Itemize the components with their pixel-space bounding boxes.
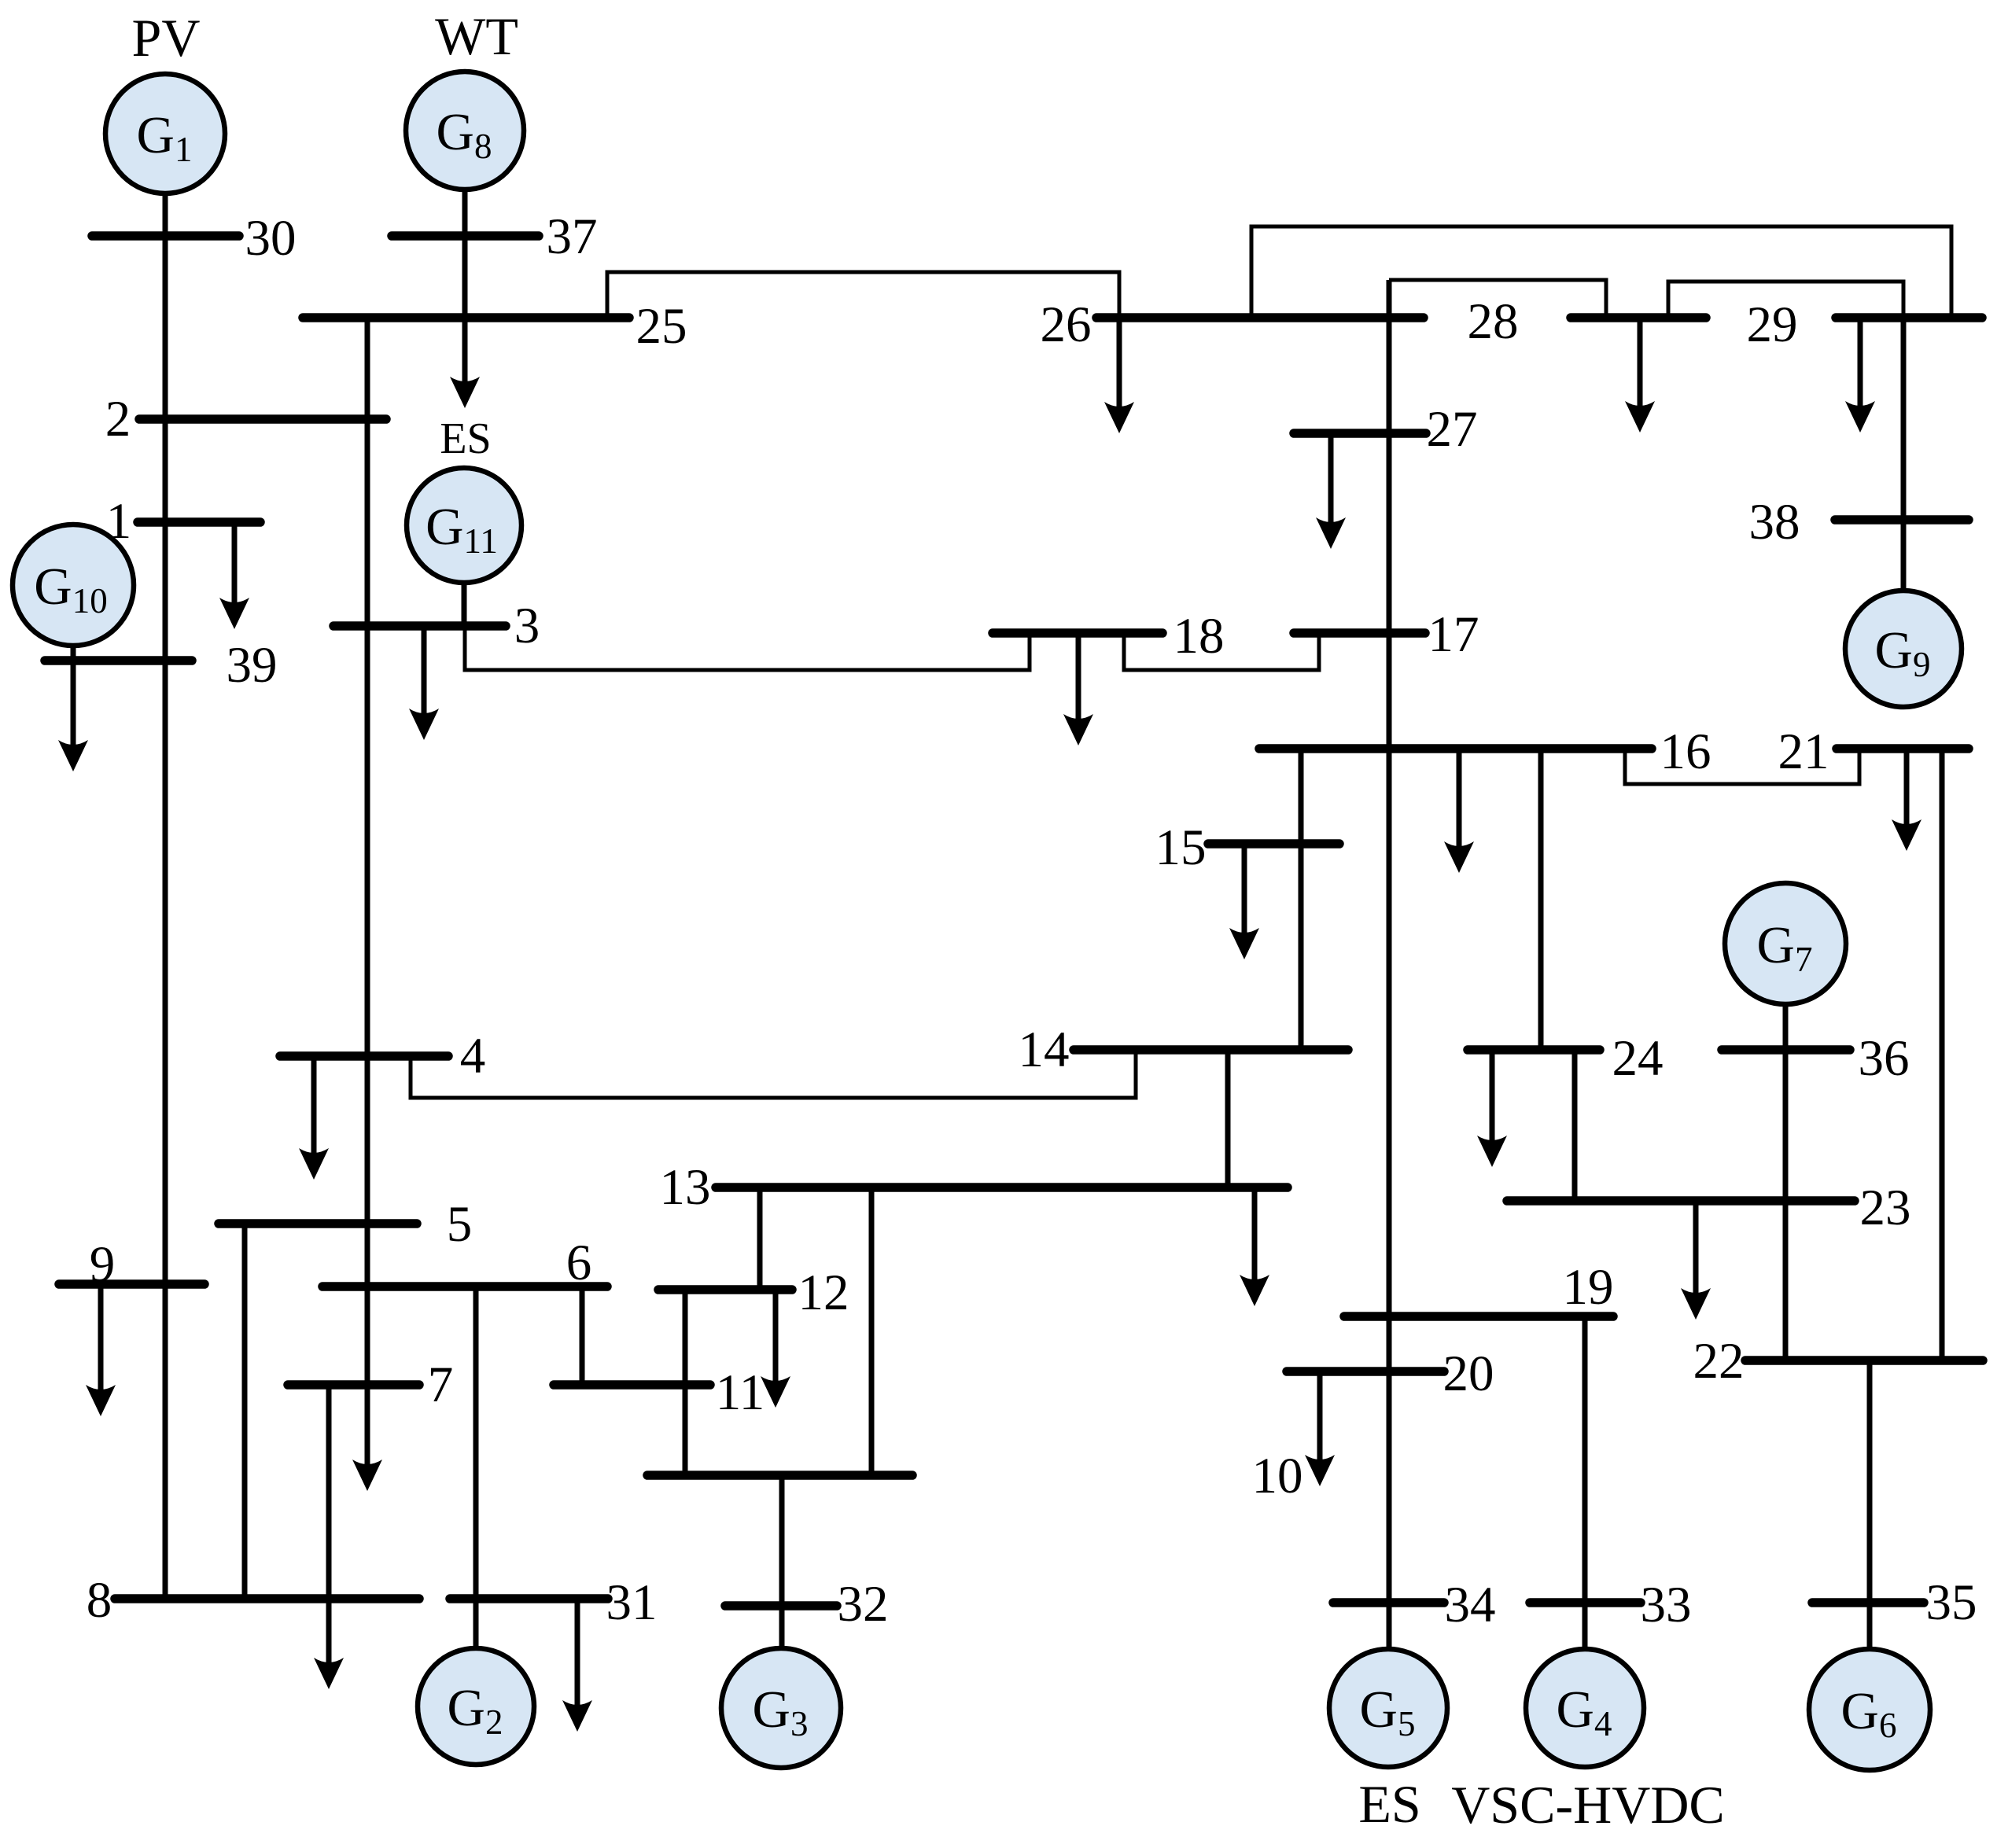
wire 12-11-10 column [683,1290,688,1475]
load arrow bus 13 [1240,1187,1269,1306]
node bus 12 (bus bar) [658,1285,792,1294]
svg-text:8: 8 [87,1572,112,1629]
node bus 25 (bus bar) [303,313,629,322]
svg-text:11: 11 [716,1364,765,1421]
wire line 16-24 [1538,749,1544,1050]
load arrow bus 3 [409,626,439,740]
wire line 7-8 with load arrow bus 8 [314,1385,344,1689]
load arrow bus 23 [1681,1201,1711,1320]
load arrow bus 26 [1104,318,1134,433]
node bus 19 (bus bar) [1344,1312,1613,1321]
wire line 10-13 [869,1187,875,1475]
wire line 17-18 [1124,633,1319,670]
node bus 29 (bus bar) [1836,313,1982,322]
load arrow bus 9 [86,1284,116,1416]
wire line 4-14 [411,1050,1136,1098]
generator G7 [1725,883,1846,1004]
svg-text:ES: ES [1358,1774,1420,1834]
wire G7-36-23-22 column [1783,1004,1789,1360]
svg-text:2: 2 [105,391,131,447]
load arrow bus 28 [1625,318,1655,433]
node bus 17 (bus bar) [1294,628,1425,638]
svg-text:37: 37 [547,208,598,265]
node bus 10 (bus bar) [647,1471,912,1480]
generator G3 [721,1648,841,1768]
svg-text:30: 30 [245,210,297,267]
svg-text:15: 15 [1155,819,1207,876]
svg-text:14: 14 [1019,1022,1070,1078]
wire 10-32 and G3 [779,1475,785,1648]
node bus 32 (bus bar) [725,1601,837,1611]
node bus 4 (bus bar) [280,1051,448,1061]
generator G10 [13,525,134,646]
svg-text:39: 39 [227,637,278,694]
generator G4 [1526,1649,1644,1767]
node bus 22 (bus bar) [1745,1356,1983,1365]
svg-text:WT: WT [435,6,518,66]
svg-text:3: 3 [514,598,540,654]
svg-text:34: 34 [1445,1577,1496,1633]
svg-text:4: 4 [460,1028,486,1084]
node bus 36 (bus bar) [1722,1045,1850,1055]
node bus 28 (bus bar) [1571,313,1706,322]
svg-text:6: 6 [566,1235,592,1291]
node bus 8 (bus bar) [115,1594,419,1603]
load arrow bus 29 [1845,318,1875,433]
node bus 1 (bus bar) [138,517,260,527]
svg-text:19: 19 [1563,1259,1614,1316]
load arrow bus 25 [450,318,480,408]
node bus 3 (bus bar) [333,621,506,631]
node bus 6 (bus bar) [322,1282,607,1291]
svg-text:10: 10 [1252,1448,1303,1504]
svg-text:PV: PV [132,8,201,68]
svg-text:31: 31 [606,1574,658,1631]
load arrow bus 7 [352,1385,382,1491]
generator G8 [406,72,524,190]
svg-text:36: 36 [1859,1030,1910,1087]
node bus 16 (bus bar) [1259,744,1652,753]
svg-text:VSC-HVDC: VSC-HVDC [1451,1775,1725,1835]
wire G8 to bus 37 and bus 25 [462,190,468,318]
wire line 13-14 [1225,1050,1231,1187]
node bus 39 (bus bar) [45,656,192,665]
wire line 6-11 [580,1287,585,1385]
svg-text:7: 7 [428,1357,454,1413]
wire line 26-28 [1389,280,1606,318]
node bus 13 (bus bar) [716,1183,1288,1192]
node bus 5 (bus bar) [219,1219,417,1228]
generator G6 [1809,1649,1930,1770]
node bus 27 (bus bar) [1294,429,1426,438]
svg-text:26: 26 [1041,296,1092,353]
svg-text:32: 32 [838,1576,889,1633]
generator G11 [407,468,521,583]
load arrow bus 4 [299,1056,329,1180]
node bus 37 (bus bar) [392,231,539,241]
generator G5 [1329,1649,1447,1767]
node bus 14 (bus bar) [1074,1045,1348,1055]
svg-text:22: 22 [1693,1333,1745,1390]
node bus 11 (bus bar) [554,1380,710,1390]
load arrow bus 39 [58,661,88,771]
svg-text:1: 1 [106,493,132,550]
wire line 28-29 [1668,282,1903,318]
load arrow bus 21 [1892,749,1921,851]
load arrow bus 31 [562,1599,592,1732]
node bus 2 (bus bar) [139,414,386,424]
node bus 9 (bus bar) [59,1279,204,1289]
svg-text:23: 23 [1860,1180,1911,1236]
svg-text:16: 16 [1660,723,1711,780]
svg-text:35: 35 [1926,1574,1977,1631]
wire 22-35 and G6 [1867,1360,1873,1649]
load arrow bus 20 (10) [1305,1371,1335,1486]
node bus 38 (bus bar) [1835,515,1969,525]
node bus 34 (bus bar) [1333,1598,1444,1607]
load arrow bus 27 [1316,433,1346,549]
wire G11 to bus 3 [462,583,467,626]
node bus 33 (bus bar) [1530,1598,1641,1607]
wire line 21-22 [1940,749,1945,1360]
wire line 16-21 [1625,749,1859,784]
node bus 31 (bus bar) [450,1594,608,1603]
wire 2-25 / 2-3-4-5-6-7 column [365,318,370,1385]
node bus 35 (bus bar) [1812,1598,1924,1607]
node bus 23 (bus bar) [1507,1196,1855,1206]
wire line 12-13 [757,1187,763,1290]
wire line 26-29 [1251,226,1951,318]
wire 6-31 and G2 [473,1287,479,1649]
load arrow bus 12 [761,1290,790,1408]
svg-text:9: 9 [90,1236,116,1293]
load arrow bus 15 [1229,844,1259,959]
load arrow bus 24 [1477,1050,1507,1167]
wire 16-15-14 column [1299,749,1304,1050]
svg-text:29: 29 [1747,296,1798,353]
wire 19-33 and G4 [1582,1316,1588,1649]
load arrow bus 16 [1444,749,1474,873]
generator G9 [1845,591,1962,707]
svg-text:28: 28 [1468,293,1519,350]
wire line 25-26 [607,272,1119,318]
svg-text:ES: ES [440,414,491,463]
node bus 24 (bus bar) [1468,1045,1600,1055]
wire 26-27-17-16-19-20-34 column [1387,280,1392,1649]
node bus 15 (bus bar) [1208,839,1339,849]
svg-text:21: 21 [1778,723,1829,780]
svg-text:18: 18 [1174,608,1225,664]
wire line 29-38 and G9 [1901,318,1907,591]
node bus 7 (bus bar) [288,1380,419,1390]
svg-text:27: 27 [1427,401,1478,458]
svg-text:12: 12 [798,1265,849,1321]
svg-text:33: 33 [1641,1577,1692,1633]
node bus 26 (bus bar) [1096,313,1424,322]
node bus 30 (bus bar) [92,231,239,241]
svg-text:24: 24 [1612,1030,1664,1087]
wire G1 column (G1-30-2-1-39-9-8) [163,193,168,1599]
load arrow bus 18 [1063,633,1093,745]
svg-text:17: 17 [1428,606,1479,663]
wire line 23-24 [1572,1050,1578,1201]
svg-text:25: 25 [636,298,687,355]
generator G2 [418,1648,534,1765]
wire G10 to bus 39 [71,646,76,661]
svg-text:20: 20 [1443,1346,1494,1402]
generator G1 [105,74,225,193]
svg-text:5: 5 [447,1196,473,1253]
svg-text:38: 38 [1749,494,1800,550]
wire line 5-8 [242,1224,248,1599]
svg-text:13: 13 [660,1159,711,1216]
node bus 21 (bus bar) [1837,744,1969,753]
wire line 3-18 [465,626,1030,670]
node bus 18 (bus bar) [993,628,1162,638]
load arrow bus 1 [219,522,249,629]
node bus 20 (bus bar) [1287,1367,1444,1376]
